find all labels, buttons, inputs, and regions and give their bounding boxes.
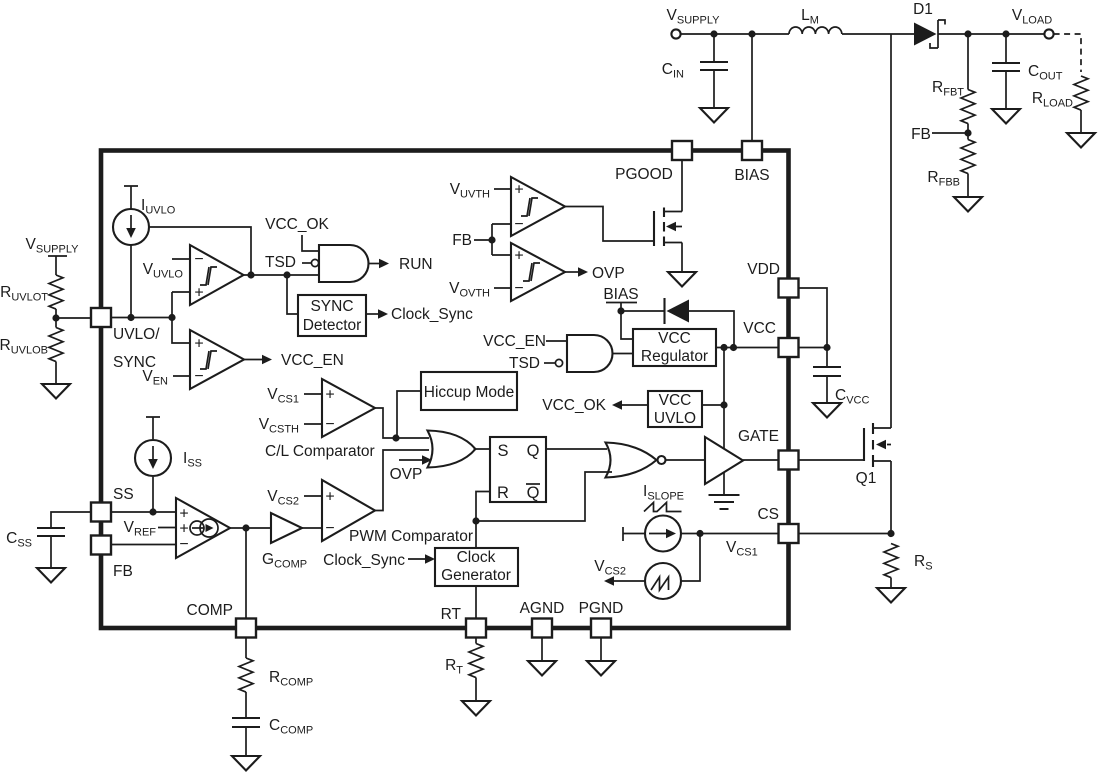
svg-text:D1: D1 bbox=[913, 1, 933, 18]
block Hiccup Mode bbox=[421, 372, 517, 410]
wire RUN output bbox=[369, 263, 380, 265]
svg-text:FB: FB bbox=[113, 563, 133, 580]
svg-text:PGOOD: PGOOD bbox=[615, 166, 673, 183]
svg-text:FB: FB bbox=[452, 232, 472, 249]
svg-text:Clock_Sync: Clock_Sync bbox=[323, 552, 405, 569]
wire VCC_EN output bbox=[244, 359, 262, 361]
ground driver bbox=[709, 495, 740, 509]
wire clock gen to RT bbox=[475, 586, 477, 619]
wire C/L output bbox=[375, 408, 429, 438]
svg-text:Q: Q bbox=[527, 442, 540, 460]
wire driver output to GATE bbox=[743, 459, 779, 461]
node FB external bbox=[964, 129, 971, 136]
wire Q1 drain riser bbox=[890, 34, 892, 428]
svg-text:+: + bbox=[325, 489, 334, 506]
resistor RT external bbox=[475, 638, 477, 644]
svg-text:R: R bbox=[497, 484, 509, 502]
svg-text:VCC: VCC bbox=[658, 330, 691, 347]
pin COMP bbox=[236, 619, 256, 638]
op-amp gate driver bbox=[705, 437, 743, 484]
wire FB input bbox=[111, 544, 176, 546]
ground CCOMP bbox=[232, 756, 260, 771]
svg-text:UVLO/: UVLO/ bbox=[113, 326, 160, 343]
svg-text:Q1: Q1 bbox=[856, 470, 877, 487]
svg-text:Generator: Generator bbox=[441, 567, 511, 584]
wire NOR to driver bbox=[666, 459, 706, 461]
pin VCC bbox=[779, 338, 799, 357]
wire top rail left bbox=[681, 33, 789, 35]
resistor RS bbox=[884, 544, 898, 578]
svg-text:Regulator: Regulator bbox=[641, 348, 708, 365]
wire CS external bbox=[799, 533, 892, 535]
wire error amp output bbox=[230, 527, 271, 529]
wire R node to NOR input bbox=[476, 472, 612, 521]
svg-text:TSD: TSD bbox=[509, 355, 540, 372]
pin PGOOD bbox=[672, 141, 692, 160]
svg-text:RT: RT bbox=[441, 606, 462, 623]
wire Clock_Sync output bbox=[366, 313, 378, 315]
block SYNC Detector bbox=[298, 295, 366, 336]
wire inductor to D1 bbox=[842, 33, 914, 35]
svg-text:VCC_OK: VCC_OK bbox=[542, 397, 606, 414]
node VSUPPLY terminal bbox=[671, 29, 680, 38]
capacitor CVCC bbox=[826, 348, 828, 404]
pin UVLO/SYNC bbox=[91, 308, 111, 327]
wire driver ground bbox=[723, 472, 725, 495]
svg-text:VCC: VCC bbox=[659, 392, 692, 409]
svg-text:FB: FB bbox=[911, 126, 931, 143]
pin PGND bbox=[591, 619, 611, 638]
block Clock Generator bbox=[435, 548, 518, 586]
wire ISLOPE to CS bbox=[681, 533, 779, 535]
svg-text:−: − bbox=[194, 368, 203, 385]
node RFBT junction bbox=[964, 30, 971, 37]
svg-text:GATE: GATE bbox=[738, 428, 779, 445]
wire VCC rail down bbox=[723, 348, 725, 449]
svg-text:−: − bbox=[514, 216, 523, 233]
svg-text:S: S bbox=[497, 442, 508, 460]
svg-text:Clock_Sync: Clock_Sync bbox=[391, 306, 473, 323]
ground RLOAD bbox=[1067, 133, 1095, 148]
wire COMP pin drop bbox=[245, 528, 247, 619]
node CIN junction bbox=[710, 30, 717, 37]
svg-text:−: − bbox=[179, 536, 188, 553]
svg-text:Detector: Detector bbox=[303, 317, 362, 334]
wire VDD external bbox=[799, 288, 828, 348]
pin GATE bbox=[779, 451, 799, 470]
svg-text:CS: CS bbox=[757, 506, 779, 523]
svg-text:RUN: RUN bbox=[399, 256, 433, 273]
ground RUVLOB bbox=[42, 384, 70, 399]
wire R input bbox=[476, 492, 490, 549]
ground PGND bbox=[600, 638, 602, 662]
node UVLO divider junction bbox=[52, 314, 59, 321]
wire PWM output to OR bbox=[375, 450, 429, 511]
pin AGND bbox=[532, 619, 552, 638]
wire UVTH comp to PGOOD fet gate bbox=[565, 207, 654, 242]
IC block outline bbox=[101, 151, 789, 629]
svg-text:VCC_OK: VCC_OK bbox=[265, 216, 329, 233]
current source IUVLO bbox=[124, 186, 138, 209]
node VLOAD terminal bbox=[1044, 29, 1053, 38]
pin BIAS bbox=[742, 141, 762, 160]
ground PGOOD fet bbox=[668, 272, 696, 287]
wire dashed VLOAD to RLOAD bbox=[1054, 34, 1081, 72]
svg-text:OVP: OVP bbox=[592, 265, 625, 282]
pin VDD bbox=[779, 279, 799, 298]
svg-text:PWM Comparator: PWM Comparator bbox=[349, 528, 473, 545]
svg-text:PGND: PGND bbox=[579, 600, 624, 617]
pin FB bbox=[91, 536, 111, 555]
wire BIAS to regulator input bbox=[621, 311, 633, 339]
latch SR bbox=[490, 437, 546, 502]
wire comp out to SYNC detector bbox=[287, 275, 298, 314]
wire UVLO comp output bbox=[244, 274, 320, 276]
svg-text:SYNC: SYNC bbox=[310, 298, 353, 315]
svg-text:+: + bbox=[179, 521, 188, 538]
svg-text:−: − bbox=[325, 520, 334, 537]
wire BIAS pin riser bbox=[751, 34, 753, 141]
svg-text:+: + bbox=[194, 336, 203, 353]
node IUVLO junction bbox=[127, 314, 134, 321]
ground RFBB bbox=[954, 197, 982, 212]
svg-text:Hiccup Mode: Hiccup Mode bbox=[424, 384, 514, 401]
wire VCC external bbox=[799, 347, 828, 349]
svg-text:−: − bbox=[194, 251, 203, 268]
ground COUT bbox=[992, 109, 1020, 124]
ground CSS bbox=[37, 568, 65, 583]
svg-text:+: + bbox=[194, 285, 203, 302]
capacitor CCOMP bbox=[232, 718, 260, 727]
capacitor CSS bbox=[51, 512, 91, 568]
op-amp UVLO comparator bbox=[190, 245, 244, 305]
wire VCS2 sampler bbox=[681, 534, 700, 582]
svg-text:TSD: TSD bbox=[265, 254, 296, 271]
svg-text:BIAS: BIAS bbox=[734, 167, 769, 184]
ground CIN bbox=[700, 108, 728, 123]
or-gate S input bbox=[428, 431, 476, 468]
diode VCC regulator bypass bbox=[621, 310, 664, 312]
wire Q1 source bbox=[890, 461, 892, 534]
svg-text:Q: Q bbox=[527, 484, 540, 502]
svg-text:−: − bbox=[325, 416, 334, 433]
svg-text:VCC_EN: VCC_EN bbox=[281, 352, 344, 369]
svg-text:COMP: COMP bbox=[187, 602, 234, 619]
ground CVCC bbox=[813, 403, 841, 418]
svg-text:SS: SS bbox=[113, 486, 134, 503]
svg-text:Clock: Clock bbox=[457, 549, 496, 566]
ground RT bbox=[462, 701, 490, 716]
block VCC Regulator bbox=[633, 329, 716, 366]
node comparator input junction bbox=[168, 314, 175, 321]
svg-text:+: + bbox=[514, 248, 523, 265]
svg-text:VCC: VCC bbox=[743, 320, 776, 337]
ground RS bbox=[877, 588, 905, 603]
svg-text:VCC_EN: VCC_EN bbox=[483, 333, 546, 350]
node OVP input arrow bbox=[399, 459, 422, 461]
transistor PGOOD MOSFET bbox=[653, 211, 655, 246]
pin RT bbox=[466, 619, 486, 638]
wire output to IUVLO control bbox=[149, 227, 251, 275]
block VCC UVLO bbox=[648, 391, 702, 427]
op-amp VEN comparator bbox=[172, 318, 190, 377]
wire hiccup tap bbox=[397, 391, 421, 438]
wire GATE external bbox=[799, 459, 865, 461]
svg-text:UVLO: UVLO bbox=[654, 410, 696, 427]
svg-text:+: + bbox=[514, 182, 523, 199]
pin SS bbox=[91, 503, 111, 522]
and-gate RUN (AND with inverted TSD input) bbox=[319, 245, 369, 282]
svg-text:C/L Comparator: C/L Comparator bbox=[265, 443, 375, 460]
svg-text:BIAS: BIAS bbox=[603, 286, 638, 303]
ground AGND bbox=[541, 638, 543, 662]
resistor RCOMP bbox=[245, 638, 247, 659]
current source ISS bbox=[146, 417, 160, 439]
wire to UVLO pin bbox=[56, 317, 91, 319]
node BIAS junction bbox=[748, 30, 755, 37]
wire UVLO internal bbox=[111, 317, 172, 319]
wire VCC_OK output bbox=[622, 404, 648, 406]
source VCS2 sawtooth bbox=[645, 563, 681, 599]
svg-text:+: + bbox=[325, 387, 334, 404]
wire D1 to VLOAD bbox=[938, 33, 1044, 35]
node COUT junction bbox=[1002, 30, 1009, 37]
wire OR to latch S bbox=[474, 448, 491, 450]
wire SS input bbox=[111, 511, 176, 513]
wire Q output bbox=[546, 448, 607, 450]
wire IUVLO to node bbox=[130, 245, 132, 318]
pin CS bbox=[779, 524, 799, 543]
svg-text:VDD: VDD bbox=[747, 261, 780, 278]
svg-text:OVP: OVP bbox=[390, 466, 423, 483]
op-amp error amplifier bbox=[176, 498, 230, 558]
wire VCC regulator output bbox=[716, 347, 779, 349]
wire OVP output bbox=[565, 271, 578, 273]
nor-gate gate logic bbox=[606, 443, 657, 478]
op-amp GCOMP buffer bbox=[271, 513, 302, 543]
svg-text:−: − bbox=[514, 280, 523, 297]
svg-text:AGND: AGND bbox=[520, 600, 565, 617]
